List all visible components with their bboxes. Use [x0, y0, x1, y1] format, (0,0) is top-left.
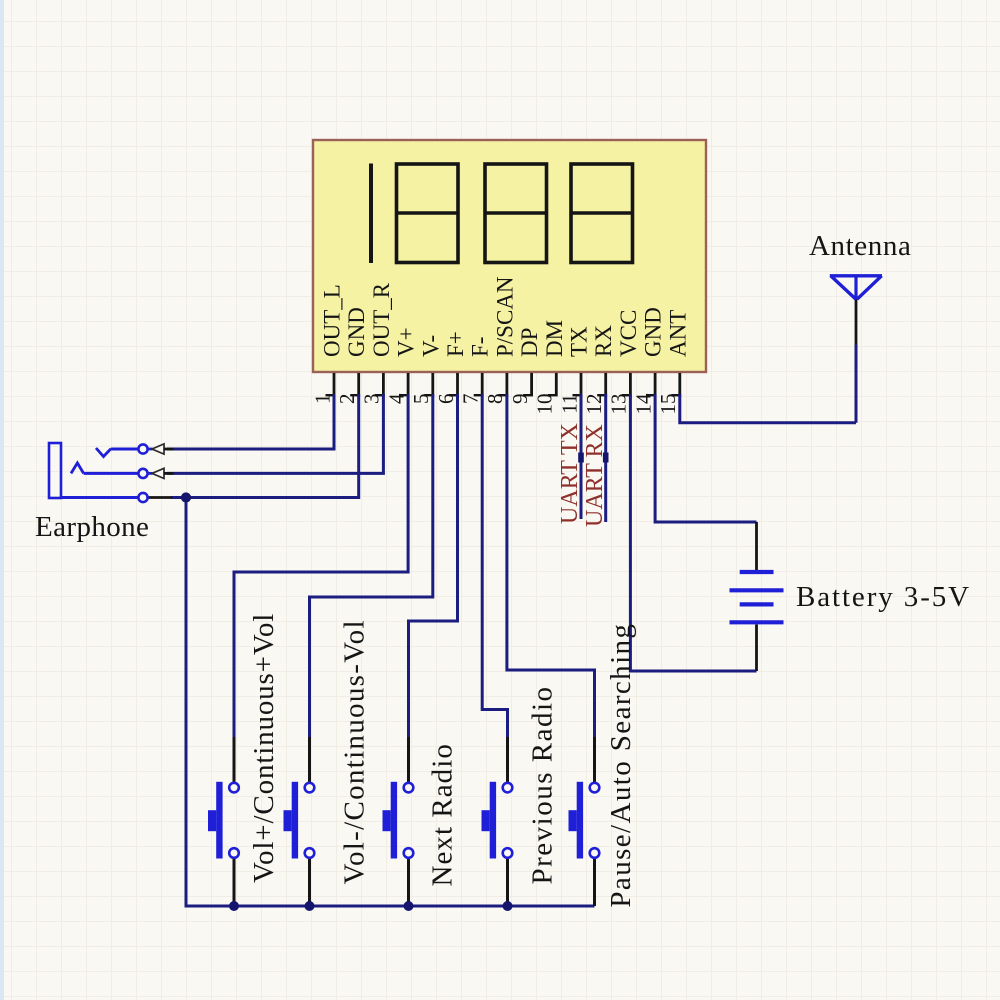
- svg-text:Earphone: Earphone: [35, 511, 149, 543]
- svg-text:GND: GND: [641, 307, 666, 357]
- svg-text:Next Radio: Next Radio: [427, 743, 459, 886]
- svg-text:6: 6: [434, 394, 458, 405]
- svg-text:ANT: ANT: [665, 310, 690, 357]
- svg-text:P/SCAN: P/SCAN: [492, 276, 517, 357]
- svg-text:14: 14: [631, 393, 655, 415]
- svg-text:UART TX: UART TX: [557, 423, 583, 524]
- svg-text:13: 13: [607, 394, 631, 415]
- svg-text:Antenna: Antenna: [809, 230, 911, 262]
- svg-text:VCC: VCC: [616, 310, 641, 357]
- svg-text:DP: DP: [517, 328, 542, 357]
- svg-text:OUT_R: OUT_R: [369, 282, 394, 357]
- svg-text:2: 2: [335, 394, 359, 405]
- svg-text:8: 8: [483, 394, 507, 405]
- svg-text:Previous Radio: Previous Radio: [527, 685, 559, 884]
- svg-text:12: 12: [582, 394, 606, 415]
- svg-text:V+: V+: [394, 327, 419, 357]
- svg-text:F-: F-: [468, 337, 493, 357]
- svg-text:Vol+/Continuous+Vol: Vol+/Continuous+Vol: [248, 613, 280, 883]
- svg-text:3: 3: [360, 394, 384, 405]
- svg-text:Pause/Auto Searching: Pause/Auto Searching: [605, 623, 637, 908]
- svg-text:OUT_L: OUT_L: [320, 284, 345, 357]
- svg-text:11: 11: [557, 394, 581, 414]
- svg-text:DM: DM: [542, 320, 567, 357]
- svg-text:TX: TX: [567, 326, 592, 357]
- svg-text:9: 9: [508, 394, 532, 405]
- svg-text:GND: GND: [344, 307, 369, 357]
- svg-text:V-: V-: [418, 335, 443, 357]
- svg-text:4: 4: [384, 393, 408, 404]
- svg-text:F+: F+: [443, 331, 468, 357]
- svg-text:RX: RX: [591, 325, 616, 357]
- svg-text:15: 15: [656, 394, 680, 415]
- svg-text:Battery 3-5V: Battery 3-5V: [796, 581, 971, 613]
- svg-text:UART RX: UART RX: [582, 424, 608, 527]
- svg-text:Vol-/Continuous-Vol: Vol-/Continuous-Vol: [339, 619, 371, 884]
- svg-text:1: 1: [310, 394, 334, 405]
- svg-text:5: 5: [409, 394, 433, 405]
- svg-text:10: 10: [533, 394, 557, 415]
- svg-text:7: 7: [459, 394, 483, 405]
